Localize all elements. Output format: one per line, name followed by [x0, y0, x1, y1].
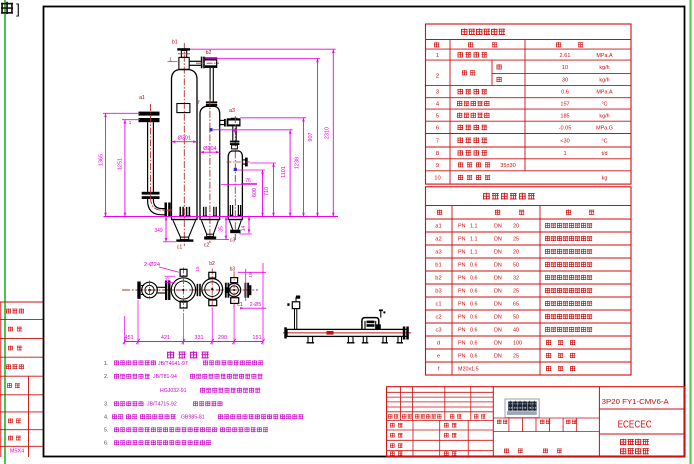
svg-text:b2: b2: [206, 50, 212, 56]
svg-text:DN: DN: [494, 302, 502, 308]
skid supports: [307, 336, 404, 342]
svg-text:a1: a1: [435, 224, 441, 230]
manhole on V1: [177, 104, 190, 113]
leader crossing marker: [233, 128, 237, 132]
table1 row 5: [436, 101, 608, 108]
svg-text:PN: PN: [458, 341, 466, 347]
svg-text:JB/T4715-92: JB/T4715-92: [147, 402, 177, 408]
svg-text:b1: b1: [172, 40, 178, 46]
table2 row e: [437, 353, 575, 360]
svg-text:65: 65: [513, 302, 519, 308]
svg-text:100: 100: [513, 341, 522, 347]
svg-text:2.: 2.: [104, 374, 109, 380]
circulation pipe centerline: [151, 104, 173, 212]
svg-text:b2: b2: [435, 276, 441, 282]
svg-text:Ø301: Ø301: [178, 135, 191, 141]
svg-text:710: 710: [264, 187, 270, 196]
svg-text:a1: a1: [139, 95, 145, 101]
watermark badge: [505, 399, 539, 418]
dimension 2310: [190, 49, 335, 216]
svg-text:a3: a3: [229, 108, 235, 114]
svg-text:9: 9: [436, 163, 439, 169]
nozzle b1 (V1 top): [177, 48, 190, 69]
svg-text:1365: 1365: [98, 154, 104, 166]
svg-text:1.1: 1.1: [470, 224, 478, 230]
svg-text:1: 1: [563, 151, 566, 157]
vessel V2 centerline: [209, 99, 211, 243]
svg-text:1101: 1101: [281, 166, 287, 178]
svg-text:15: 15: [195, 266, 200, 272]
plan: flange between V2 and V3: [225, 283, 230, 298]
grip point on V2 centerline: [209, 128, 212, 131]
skid U-loop piping: [362, 309, 386, 329]
table2 header: [437, 210, 594, 215]
table1 row 10: [436, 162, 516, 169]
dimension 140 (V3 cone depth): [240, 217, 252, 235]
tech req item 2: [104, 374, 262, 381]
vessel V1 body: [172, 70, 198, 220]
plan: vessel V2 circle: [202, 269, 223, 310]
tech req item 1: [104, 360, 263, 367]
svg-text:JB/T81-94: JB/T81-94: [153, 374, 177, 380]
tech req item 4: [104, 414, 303, 421]
table2 row a1: [435, 223, 592, 230]
svg-text:40: 40: [513, 328, 519, 334]
svg-text:0.6: 0.6: [470, 341, 478, 347]
technical requirements title: [167, 351, 174, 358]
V2 to V3 connector elbow a3: [220, 118, 240, 126]
svg-text:0.6: 0.6: [470, 276, 478, 282]
svg-text:PN: PN: [458, 354, 466, 360]
right green margin line: [689, 0, 691, 464]
vessel V3 centerline: [234, 116, 236, 240]
svg-text:MPa.A: MPa.A: [596, 53, 613, 59]
table1 row 6: [436, 113, 610, 120]
svg-text:c1: c1: [435, 302, 441, 308]
dimension 710: [250, 163, 276, 217]
svg-text:c1: c1: [177, 245, 183, 251]
svg-text:PN: PN: [458, 263, 466, 269]
svg-text:b3: b3: [230, 267, 236, 273]
table2 row c2: [435, 314, 592, 321]
svg-text:DN: DN: [494, 315, 502, 321]
svg-text:DN: DN: [494, 289, 502, 295]
svg-text:1238: 1238: [295, 157, 301, 169]
svg-text:50: 50: [513, 263, 519, 269]
svg-text:30: 30: [562, 78, 568, 84]
table1 row 3: [497, 77, 610, 84]
svg-text:907: 907: [308, 132, 314, 141]
svg-text:PN: PN: [458, 289, 466, 295]
svg-text:6.: 6.: [104, 441, 109, 447]
cropped text fragment top-left: [1, 1, 20, 17]
plan: a1 end flange circle: [137, 281, 157, 300]
svg-text:0.6: 0.6: [470, 328, 478, 334]
dimension phi301 (V1 diameter): [172, 135, 198, 143]
svg-text:c1: c1: [237, 302, 243, 308]
left green margin line: [4, 0, 6, 464]
svg-text:M5X4: M5X4: [10, 448, 24, 454]
vapor pipe V1 to b2 valve: [189, 57, 219, 69]
svg-text:kg/h: kg/h: [599, 78, 609, 84]
table2 title: [483, 193, 490, 200]
svg-text:°C: °C: [601, 102, 607, 108]
table1 row 2: [436, 64, 610, 79]
table2 row b2: [435, 275, 592, 282]
tech req item 2 cont: [160, 388, 260, 395]
title block left revision rows: [387, 387, 494, 457]
svg-text:6: 6: [436, 126, 439, 132]
svg-text:c3: c3: [230, 238, 236, 244]
svg-text:c2: c2: [204, 243, 210, 249]
svg-text:b1: b1: [435, 263, 441, 269]
dimension 907: [205, 59, 320, 217]
table1 row 1: [436, 52, 613, 59]
table1 row 7: [436, 125, 613, 132]
svg-text:2310: 2310: [324, 127, 330, 139]
svg-text:5.: 5.: [104, 428, 109, 434]
plan: vessel V1 circle: [171, 268, 195, 312]
svg-text:1.1: 1.1: [470, 250, 478, 256]
svg-text:ECECEC: ECECEC: [618, 418, 652, 430]
svg-text:185: 185: [560, 113, 569, 119]
svg-text:a3: a3: [435, 250, 441, 256]
table2 row d: [437, 340, 575, 347]
svg-text:600: 600: [252, 188, 258, 197]
svg-text:DN: DN: [494, 341, 502, 347]
svg-text:1251: 1251: [118, 158, 124, 170]
V1 support brackets: [179, 207, 190, 217]
svg-text:JB/T4641-97: JB/T4641-97: [158, 361, 188, 367]
svg-text:°C: °C: [601, 138, 607, 144]
svg-text:2-Ø24: 2-Ø24: [144, 262, 161, 268]
svg-text:DN: DN: [494, 250, 502, 256]
svg-text:c3: c3: [435, 328, 441, 334]
table1 row 11: [434, 175, 607, 182]
plan: offset dim 15: [165, 276, 176, 282]
svg-text:3P20 FY1-CMV6-A: 3P20 FY1-CMV6-A: [602, 397, 669, 406]
svg-text:3: 3: [436, 90, 439, 96]
plan: bolt circle note 2-phi24: [144, 262, 179, 273]
svg-text:b3: b3: [435, 289, 441, 295]
table: nozzle schedule: [426, 187, 632, 375]
title block frame: [387, 387, 685, 457]
title block sheet row: [504, 448, 562, 453]
svg-text:e: e: [437, 354, 440, 360]
svg-text:421: 421: [161, 335, 170, 341]
plan: right side dims: [238, 263, 266, 342]
tech req item 5: [104, 427, 268, 434]
svg-text:1: 1: [169, 57, 172, 62]
V1 bottom cone and outlet c1: [172, 220, 198, 242]
svg-text:PN: PN: [458, 237, 466, 243]
svg-text:0.6: 0.6: [470, 315, 478, 321]
svg-text:DN: DN: [494, 224, 502, 230]
svg-text:0.6: 0.6: [561, 90, 569, 96]
svg-text:DN: DN: [494, 328, 502, 334]
dimension 1101: [213, 130, 293, 217]
svg-text:3.: 3.: [104, 402, 109, 408]
skid instrument stand: [287, 296, 300, 330]
svg-text:8: 8: [436, 151, 439, 157]
table2 row c3: [435, 327, 592, 334]
svg-text:1.: 1.: [104, 361, 109, 367]
tech req item 3: [104, 401, 222, 408]
svg-text:151: 151: [252, 335, 261, 341]
svg-text:e: e: [244, 288, 247, 293]
dimension 349 (V1 cone depth): [154, 217, 176, 242]
svg-text:10: 10: [562, 65, 568, 71]
dimension phi204 (V2 diameter): [200, 146, 220, 154]
table1 row 9: [436, 150, 608, 157]
svg-text:50: 50: [513, 315, 519, 321]
vessel V2 body: [200, 106, 220, 219]
vessel V3 body: [228, 151, 242, 220]
circulation pipe a1 assembly: [139, 112, 171, 216]
svg-text:2: 2: [436, 74, 439, 80]
table1 row 8: [436, 137, 608, 144]
svg-text:DN: DN: [494, 276, 502, 282]
svg-text:0.6: 0.6: [470, 289, 478, 295]
svg-text:DN: DN: [494, 237, 502, 243]
svg-text:1: 1: [436, 53, 439, 59]
svg-text:Ø204: Ø204: [203, 146, 216, 152]
dimension 355 (V2 cone depth): [216, 217, 229, 240]
svg-text:1.1: 1.1: [470, 237, 478, 243]
svg-text:2.61: 2.61: [560, 53, 571, 59]
svg-text:PN: PN: [458, 276, 466, 282]
left neighbor drawing title-block strip: [0, 302, 43, 457]
company name row divider: [599, 409, 684, 434]
svg-text:PN: PN: [458, 328, 466, 334]
svg-text:0.6: 0.6: [470, 354, 478, 360]
svg-text:5: 5: [436, 113, 439, 119]
svg-text:-0.05: -0.05: [559, 126, 572, 132]
svg-text:4.: 4.: [104, 415, 109, 421]
pipe into V3 top: [230, 126, 240, 148]
svg-text:DN: DN: [494, 354, 502, 360]
svg-text:20: 20: [513, 224, 519, 230]
table2 row a2: [435, 236, 592, 243]
plan dimension chain: [123, 300, 265, 345]
svg-text:kg: kg: [602, 176, 608, 182]
small dimension 76: [221, 178, 257, 184]
svg-text:0.6: 0.6: [470, 263, 478, 269]
svg-text:349: 349: [154, 228, 163, 234]
svg-text:2-Ø5: 2-Ø5: [250, 302, 262, 308]
skid main pipe: [284, 327, 409, 340]
svg-text:MPa.A: MPa.A: [596, 90, 613, 96]
svg-text:7: 7: [436, 138, 439, 144]
vessel V1 centerline: [183, 43, 185, 246]
svg-text:<30: <30: [560, 138, 570, 144]
table2 row f: [438, 366, 575, 373]
dimension 600: [237, 170, 265, 217]
svg-text:MPa.G: MPa.G: [596, 126, 613, 132]
svg-text:32: 32: [513, 276, 519, 282]
svg-text:kg/h: kg/h: [599, 113, 609, 119]
svg-text:15: 15: [248, 272, 254, 278]
drawing title lines: [620, 439, 649, 455]
dimension 1238: [240, 118, 306, 217]
svg-text:PN: PN: [458, 302, 466, 308]
table: main parameters: [426, 24, 632, 184]
svg-text:]: ]: [16, 1, 20, 17]
svg-text:290: 290: [218, 335, 227, 341]
plan view horizontal centerline: [122, 289, 258, 291]
svg-text:PN: PN: [458, 250, 466, 256]
table2 row b1: [435, 262, 592, 269]
svg-text:c2: c2: [435, 315, 441, 321]
plan: flange between V1 and V2 circles: [197, 284, 201, 296]
svg-text:10: 10: [434, 176, 440, 182]
V2 support brackets: [203, 207, 218, 217]
svg-text:PN: PN: [458, 224, 466, 230]
dimension 1365 (left): [98, 113, 140, 216]
table2 row c1: [435, 301, 592, 308]
svg-text:25: 25: [513, 354, 519, 360]
table2 row a3: [435, 249, 592, 256]
dimension 1251 (left): [118, 120, 140, 217]
V2 bottom cone and outlet c2: [200, 220, 220, 240]
skid pipe centerline: [283, 332, 411, 334]
plan: pipe from a1 flange: [157, 280, 170, 300]
datum baseline: [104, 216, 339, 218]
svg-text:kg/h: kg/h: [599, 65, 609, 71]
V3 support brackets: [230, 205, 242, 216]
table1 title: [461, 28, 468, 35]
svg-text:14: 14: [241, 226, 247, 232]
plan: vessel V3 circle: [228, 272, 241, 309]
svg-text:b2: b2: [209, 261, 215, 267]
svg-text:HGJ032-91: HGJ032-91: [160, 388, 187, 394]
svg-text:t/d: t/d: [602, 151, 608, 157]
svg-text:35±30: 35±30: [500, 163, 516, 169]
weld tag 1 on V1 neck: [168, 57, 178, 62]
svg-text:d: d: [437, 341, 440, 347]
svg-text:25: 25: [513, 289, 519, 295]
table2 row b3: [435, 288, 592, 295]
svg-text:GB985-81: GB985-81: [181, 415, 205, 421]
svg-text:15: 15: [165, 277, 171, 283]
svg-text:35: 35: [219, 226, 225, 232]
svg-text:M20x1.5: M20x1.5: [458, 367, 479, 373]
svg-text:451: 451: [124, 335, 133, 341]
svg-text:0.6: 0.6: [470, 302, 478, 308]
svg-text:DN: DN: [494, 263, 502, 269]
title block middle grade row: [493, 418, 599, 432]
title block signature rows: [390, 423, 457, 456]
skid tag plate: [327, 331, 334, 335]
tech req item 6: [104, 440, 211, 447]
V3 bottom cone and outlet c3: [228, 220, 242, 234]
svg-text:PN: PN: [458, 315, 466, 321]
svg-text:25: 25: [513, 237, 519, 243]
downcomer pipe b2 to V2: [206, 68, 217, 106]
svg-text:157: 157: [560, 102, 569, 108]
V3 side nozzle b3: [227, 158, 251, 167]
svg-text:20: 20: [513, 250, 519, 256]
plan: right end flange: [245, 283, 252, 298]
svg-text:a2: a2: [435, 237, 441, 243]
svg-text:331: 331: [194, 335, 203, 341]
svg-text:1: 1: [129, 120, 132, 125]
grip point on V3 centerline: [234, 168, 237, 171]
table1 row 4: [436, 89, 613, 96]
table1 header row: [434, 42, 583, 47]
title block header tiny texts: [388, 414, 485, 419]
